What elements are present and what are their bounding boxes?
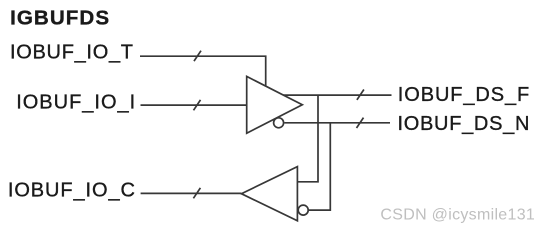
svg-text:CSDN @icysmile131: CSDN @icysmile131: [380, 206, 535, 223]
svg-text:IOBUF_IO_T: IOBUF_IO_T: [10, 41, 134, 63]
svg-text:IOBUF_IO_C: IOBUF_IO_C: [8, 179, 136, 201]
svg-text:IOBUF_IO_I: IOBUF_IO_I: [16, 92, 136, 114]
svg-text:IOBUF_DS_F: IOBUF_DS_F: [398, 84, 530, 106]
svg-text:IGBUFDS: IGBUFDS: [10, 7, 110, 30]
svg-text:IOBUF_DS_N: IOBUF_DS_N: [398, 113, 531, 135]
